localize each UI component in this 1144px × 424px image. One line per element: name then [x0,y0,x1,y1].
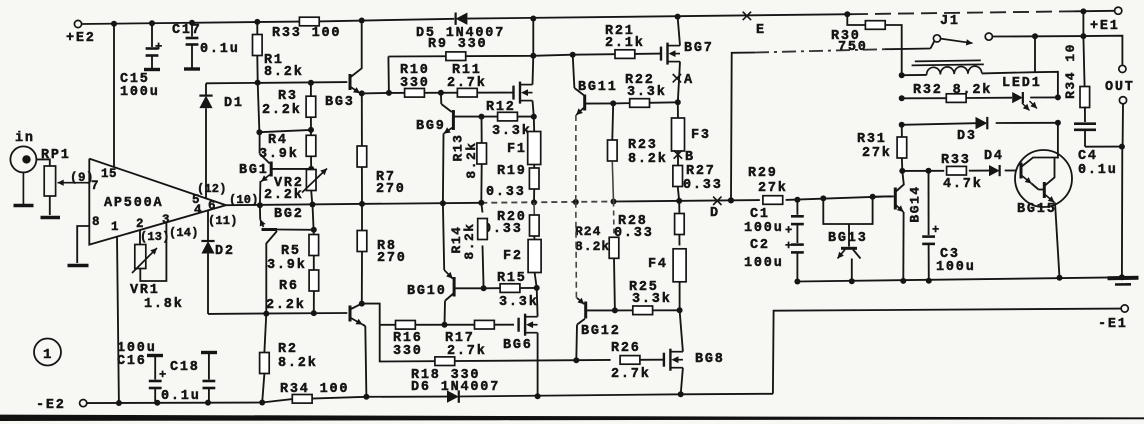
svg-text:6: 6 [208,199,216,213]
svg-text:27k: 27k [862,146,892,161]
svg-text:BG12: BG12 [581,324,621,339]
svg-text:270: 270 [376,182,406,197]
ground (pin8) [68,264,89,268]
svg-text:(13): (13) [140,230,170,244]
wire +E1 drop [1080,11,1086,39]
ground (RP1) [41,216,61,220]
wire pin1 to -E2 rail [117,236,119,403]
wire BG3 emitter row [359,90,392,97]
svg-text:2.7k: 2.7k [611,367,651,382]
fuse F3 [672,118,711,151]
diode D1 [199,83,243,198]
svg-text:R3: R3 [278,89,298,104]
svg-text:2.2k: 2.2k [264,188,304,203]
-E1 terminal [1098,305,1128,332]
ground (input jack) [14,172,34,205]
svg-text:3.9k: 3.9k [267,258,307,273]
capacitor C4 (0.1u) [1074,124,1122,178]
svg-text:R34 100: R34 100 [280,382,349,397]
svg-text:8: 8 [92,215,100,229]
svg-text:1.8k: 1.8k [144,297,184,312]
svg-text:0.33: 0.33 [614,226,654,241]
wire R26 row [576,359,664,362]
svg-text:R27: R27 [686,164,716,179]
wire F3 top [677,102,679,118]
svg-text:in: in [15,131,35,146]
wire R22 row [610,99,681,106]
svg-text:F1: F1 [507,142,527,157]
resistor R19 (0.33) [486,117,539,203]
wire BG7 drain [678,17,680,46]
-E2 terminal [36,398,87,413]
diode D6 1N4007 (in rail) [411,368,500,403]
svg-text:+E1: +E1 [1090,19,1120,34]
svg-text:8.2k: 8.2k [264,65,304,80]
svg-text:R23: R23 [628,138,658,153]
resistor R15 (3.3k) [497,271,539,310]
wire contact tap [1032,33,1038,72]
svg-text:R33 100: R33 100 [272,26,341,41]
svg-text:R24: R24 [575,224,601,239]
svg-text:BG2: BG2 [274,207,304,222]
svg-text:0.1u: 0.1u [1078,163,1118,178]
ground (bus end) [1108,278,1139,285]
svg-text:0.1u: 0.1u [200,42,240,57]
resistor R3 (2.2k) [262,83,316,130]
transistor BG4 [350,304,366,397]
svg-text:R6: R6 [279,279,299,294]
svg-text:R31: R31 [857,132,887,147]
svg-text:4.7k: 4.7k [943,177,983,192]
wire BG6 drain/source [536,288,539,396]
resistor R34 (10) [1063,36,1090,122]
svg-text:8.2k: 8.2k [464,141,479,178]
transistor BG14 [873,171,923,281]
svg-text:J1: J1 [940,14,960,29]
capacitor C18 (0.1u) [161,353,217,405]
svg-text:-E1: -E1 [1098,317,1128,332]
svg-text:8.2k: 8.2k [575,239,610,254]
svg-text:E: E [756,23,766,38]
svg-text:0.33: 0.33 [483,222,523,237]
svg-text:0.33: 0.33 [486,185,526,200]
relay J1 coil [902,66,1058,97]
resistor R12 (3.3k) [486,100,532,139]
svg-text:BG8: BG8 [695,352,725,367]
wire midline to relay contact [728,49,931,204]
resistor R10 (330) [400,63,430,97]
wire R15 row [481,273,540,292]
transistor BG3 [325,21,362,111]
wire R25 row [612,307,683,313]
wire -E1 step [773,309,1121,394]
svg-text:BG7: BG7 [684,41,714,56]
resistor R18 (330) [435,357,455,366]
svg-text:F4: F4 [648,257,668,272]
resistor R30 (750) [831,14,902,75]
svg-text:-E2: -E2 [36,398,66,413]
svg-text:BG10: BG10 [407,284,447,299]
diode D3 [957,117,987,144]
resistor R26 (2.7k) [611,341,651,382]
svg-text:BG13: BG13 [828,231,868,246]
wire BG7 source / node A [673,62,694,103]
svg-text:BG6: BG6 [503,338,533,353]
transistor BG10 [407,203,484,324]
fuse F1 [507,132,541,165]
svg-text:+E2: +E2 [66,31,96,46]
svg-text:100u: 100u [120,85,160,100]
capacitor C17 (0.1u) [172,23,240,69]
wire output midline [226,194,892,208]
svg-text:8.2k: 8.2k [462,222,477,259]
wire D3 row [899,120,1061,128]
svg-text:7: 7 [91,179,99,193]
capacitor C15 (100u) [120,23,162,100]
svg-text:(11): (11) [208,214,238,228]
LED LED1 [1002,76,1042,111]
svg-text:D2: D2 [215,244,235,259]
resistor R4 (3.9k) [259,130,316,169]
capacitor C2 (100u) [744,224,804,281]
svg-text:A: A [684,73,694,88]
svg-text:+: + [932,223,939,237]
svg-text:C4: C4 [1078,149,1098,164]
resistor R23 (8.2k) [608,103,668,201]
wire R32/LED row [899,72,1061,101]
svg-text:D4: D4 [984,149,1004,164]
figure number (1) [34,339,61,366]
wire bottom rail (-E2) [87,391,773,406]
wire R33/D4 row [899,168,1015,174]
svg-text:0.33: 0.33 [683,178,723,193]
svg-text:+: + [155,40,162,54]
resistor R31 (27k) [857,125,907,171]
svg-text:270: 270 [377,251,407,266]
transistor BG12 [576,202,621,360]
resistor R11 (2.7k) [447,63,487,97]
svg-text:3.3k: 3.3k [499,295,539,310]
transistor BG13 [823,197,872,281]
wire base net of BG3 [206,80,347,86]
svg-text:8.2k: 8.2k [278,356,318,371]
wire BG5 drain/source [533,56,534,117]
resistor R33 (100, in +E2 rail) [272,17,341,41]
svg-text:100u: 100u [744,221,784,236]
svg-text:2.7k: 2.7k [447,76,487,91]
svg-text:R4: R4 [268,133,288,148]
trimmer VR1 (1.8k) [130,222,184,312]
wire pin8 to ground [77,226,89,263]
wire D2/R2/R6 row [208,310,347,317]
relay J1 core [912,60,984,65]
svg-text:C18: C18 [170,360,200,375]
svg-text:BG14: BG14 [907,185,922,222]
relay J1 switch [931,14,1084,49]
node: rail junction dots [111,8,1086,26]
resistor R8 (270) [357,204,407,304]
svg-text:8.2k: 8.2k [628,152,668,167]
mosfet BG8 [664,349,725,371]
svg-text:R12: R12 [486,100,516,115]
svg-text:C1: C1 [750,207,770,222]
svg-text:D6 1N4007: D6 1N4007 [411,380,500,395]
svg-text:R34 10: R34 10 [1063,43,1078,99]
fuse F2 [503,240,541,273]
+E2 terminal [66,20,96,46]
svg-text:100u: 100u [936,260,976,275]
svg-text:D3: D3 [957,129,977,144]
wire F4 bottom [679,282,681,310]
wire pin7 / wiper [58,171,95,186]
svg-text:BG11: BG11 [578,80,618,95]
input jack (in) [10,131,36,172]
svg-text:D1: D1 [224,96,244,111]
svg-text:(14): (14) [169,226,199,240]
mosfet BG7 [661,41,714,65]
svg-text:0.1u: 0.1u [161,389,201,404]
capacitor C3 (100u) [922,171,975,281]
resistor R28 (0.33) [614,201,684,246]
svg-text:BG9: BG9 [416,119,446,134]
svg-text:BG3: BG3 [325,95,355,110]
svg-text:BG15: BG15 [1017,202,1057,217]
resistor R14 (8.2k, vertical label) [449,203,487,288]
wire R4 row [256,83,314,136]
svg-text:3.3k: 3.3k [632,292,672,307]
svg-text:330: 330 [400,76,430,91]
capacitor C1 (100u) [744,200,804,238]
wire R10/R11 row [389,90,514,96]
svg-text:R15: R15 [497,271,527,286]
+E1 terminal [1090,7,1122,34]
wire BG8 drain/source [680,310,683,394]
resistor R16 (330) [393,321,423,360]
wire ground bus [794,274,1125,284]
wire R21 row [573,54,661,55]
potentiometer RP1 [37,148,71,215]
svg-text:R32 8.2k: R32 8.2k [913,83,992,98]
trimmer VR2 (2.2k) [264,169,327,205]
transistor BG9 [416,93,482,203]
node B (x mark) [674,150,695,166]
diode D4 [984,149,1004,176]
svg-text:2.1k: 2.1k [605,36,645,51]
svg-text:LED1: LED1 [1002,76,1042,91]
svg-text:1: 1 [111,220,119,234]
svg-text:+: + [785,224,792,238]
mosfet BG6 [503,314,538,353]
diode D2 [201,210,234,314]
resistor R34 (100, in -E2 rail) [280,382,349,403]
resistor R17 (2.7k) [445,320,494,359]
mosfet BG5 [514,82,533,104]
svg-text:VR1: VR1 [130,283,160,298]
svg-text:F2: F2 [503,249,523,264]
wire top rail (+E2 to +E1) [82,11,1115,24]
svg-text:C17: C17 [172,23,202,38]
resistor R33 (4.7k) [941,153,983,192]
svg-text:1: 1 [43,347,51,363]
resistor R27 (0.33) [673,164,723,201]
svg-text:+: + [159,368,166,382]
resistor R25 (3.3k) [629,280,672,315]
svg-text:F3: F3 [691,128,711,143]
svg-text:2.2k: 2.2k [262,103,302,118]
resistor R1 (8.2k) [253,22,304,83]
node E (x mark on rail) [743,12,766,38]
resistor R9 (330) [428,37,487,61]
resistor R7 (270) [357,93,406,203]
svg-text:R9 330: R9 330 [428,37,487,52]
svg-text:R19: R19 [497,164,527,179]
resistor R5 (3.9k) [267,205,319,274]
resistor R24 (8.2k) [575,202,619,311]
wire R12 row [479,114,537,120]
resistor R2 (8.2k) [260,314,318,403]
op-amp U1 AP500A [89,159,258,245]
resistor R13 (8.2k, vertical label) [450,117,486,203]
svg-text:100u: 100u [744,256,784,271]
svg-text:R5: R5 [281,244,301,259]
svg-text:2: 2 [136,217,144,231]
wire R16/R17 row [380,322,514,328]
svg-text:27k: 27k [758,181,788,196]
transistor BG1 [239,132,314,205]
svg-text:(12): (12) [197,182,227,196]
svg-text:R29: R29 [748,166,778,181]
svg-text:C16: C16 [117,354,147,369]
bottom border line [0,415,1144,421]
node D (x mark) [710,197,722,221]
svg-text:+: + [785,239,792,253]
diode D5 1N4007 (in rail) [416,13,505,42]
transistor BG15 (darlington) [1015,123,1072,278]
capacitor C16 (100u) [117,341,166,403]
svg-text:2.2k: 2.2k [266,298,306,313]
svg-text:750: 750 [838,40,868,55]
svg-text:RP1: RP1 [41,148,71,163]
wire BG4 collector to R16 row [359,301,380,325]
svg-text:4: 4 [194,203,202,217]
resistor R20 (0.33) [483,202,539,240]
svg-text:R33: R33 [941,153,971,168]
OUT terminals [1083,36,1134,278]
svg-text:B: B [685,150,695,165]
transistor BG11 [573,55,618,202]
svg-text:OUT: OUT [1105,80,1135,95]
transistor BG2 [260,205,317,313]
svg-text:R2: R2 [278,342,298,357]
svg-text:R26: R26 [611,341,641,356]
fuse F4 [648,249,686,282]
wire pin15 to rail [113,24,115,168]
svg-text:AP500A: AP500A [104,196,163,211]
resistor R32 (8.2k) [913,83,992,102]
svg-text:3.3k: 3.3k [492,124,532,139]
wire R9 row [388,19,575,93]
svg-text:15: 15 [101,167,117,181]
svg-text:330: 330 [393,344,423,359]
resistor R22 (3.3k) [625,73,667,107]
wire R18 row [380,325,580,363]
resistor R29 (27k) [748,166,788,204]
resistor R6 (2.2k) [266,270,319,313]
resistor R21 (2.1k) [605,24,645,58]
svg-text:C2: C2 [750,238,770,253]
svg-text:D: D [710,206,720,221]
svg-text:3.3k: 3.3k [627,85,667,100]
